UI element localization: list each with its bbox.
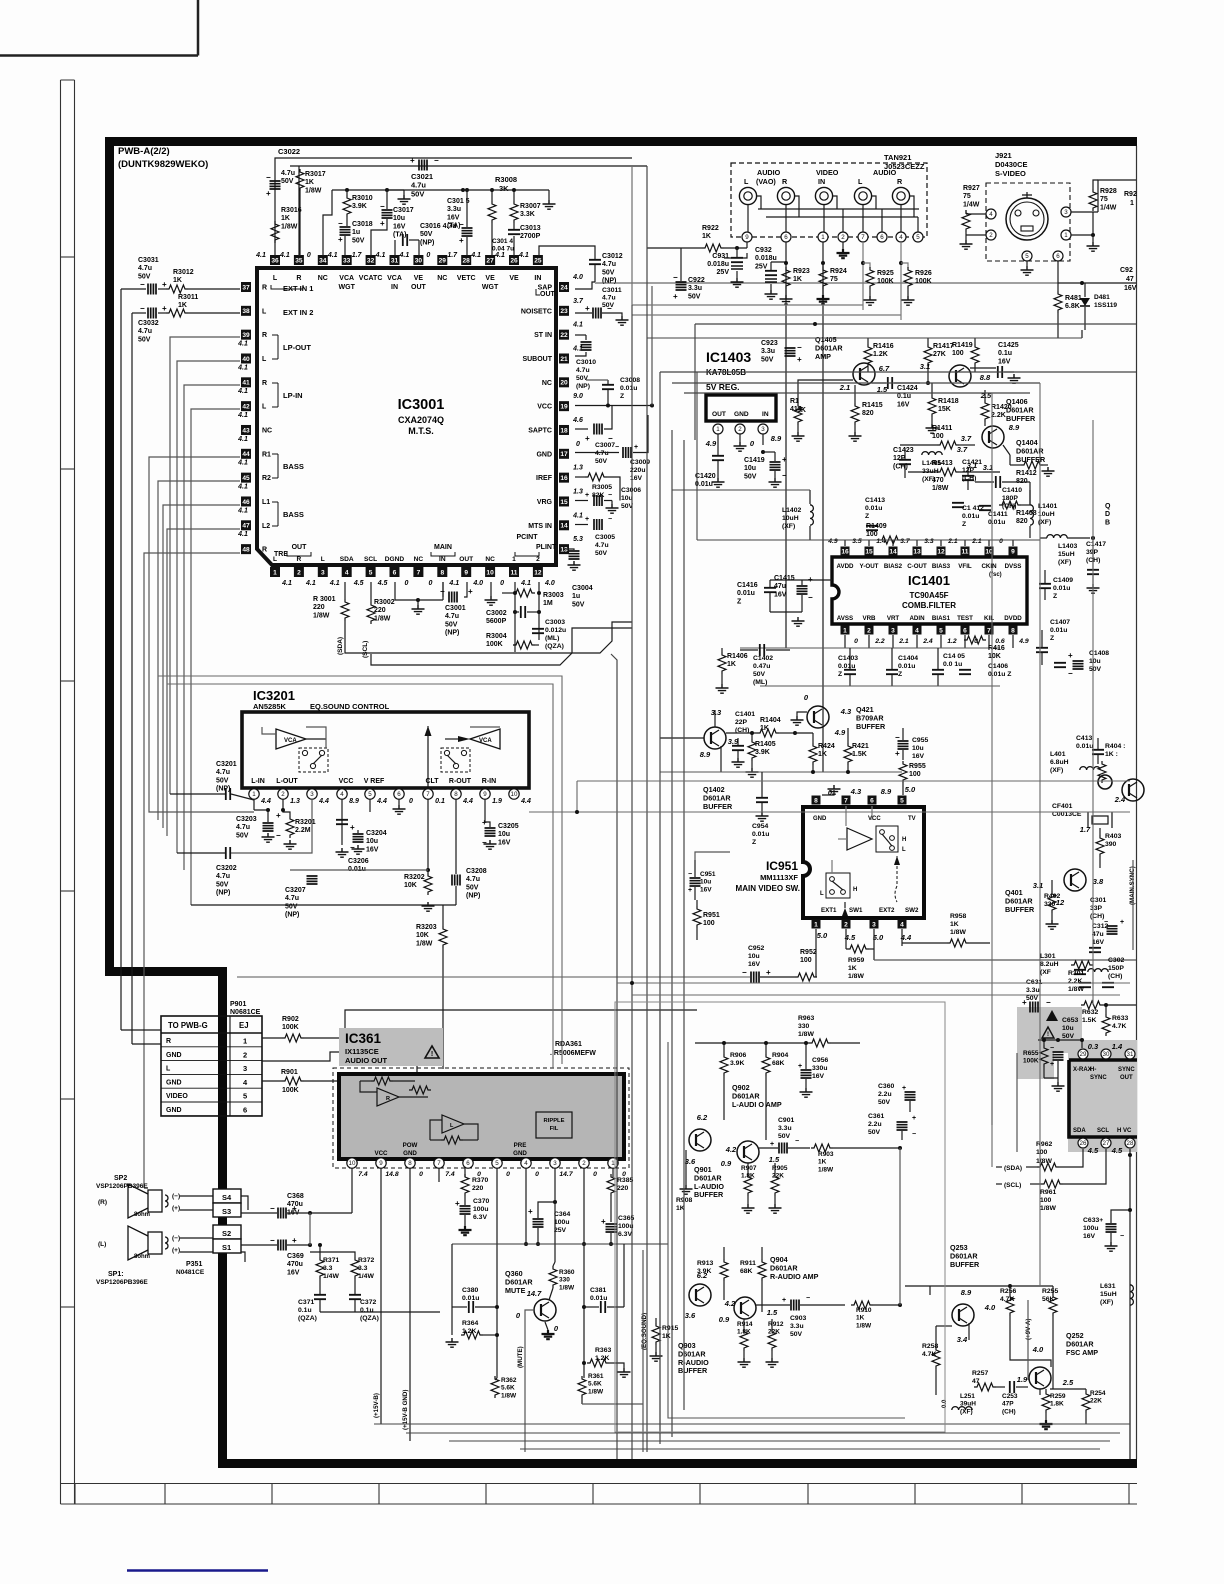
svg-text:OUT: OUT: [540, 291, 556, 298]
svg-text:2: 2: [281, 791, 285, 798]
svg-text:17: 17: [560, 451, 568, 458]
svg-text:8: 8: [440, 569, 444, 576]
svg-text:(CH): (CH): [1002, 1408, 1016, 1415]
svg-text:100K: 100K: [915, 278, 932, 285]
svg-text:6.3V: 6.3V: [473, 1214, 487, 1221]
svg-text:6: 6: [880, 234, 884, 241]
capacitor C3010: [575, 334, 586, 336]
svg-text:5.0: 5.0: [905, 785, 916, 794]
video switch IC951 body: [803, 807, 924, 918]
svg-text:100: 100: [800, 957, 812, 964]
svg-text:3.5: 3.5: [852, 538, 862, 545]
svg-text:BUFFER: BUFFER: [856, 722, 886, 731]
wire vca bus: [332, 189, 463, 191]
pin 5 IC361: [492, 1158, 502, 1168]
svg-text:5: 5: [900, 797, 904, 804]
resistor R363: [587, 1359, 609, 1367]
pin 6 TAN921: [877, 232, 887, 242]
wire vref gnd: [369, 799, 371, 812]
svg-text:C1416: C1416: [737, 582, 758, 589]
pin 1 IC1401: [841, 626, 850, 635]
svg-text:−: −: [434, 156, 439, 165]
svg-text:C3206: C3206: [348, 858, 369, 865]
svg-text:27K: 27K: [933, 351, 946, 358]
svg-text:VCA: VCA: [479, 738, 492, 744]
svg-text:4.1: 4.1: [572, 512, 583, 519]
svg-text:10u: 10u: [744, 465, 756, 472]
svg-text:15uH: 15uH: [1100, 1291, 1117, 1298]
capacitor C3006: [575, 500, 588, 502]
svg-text:150P: 150P: [1108, 965, 1124, 972]
transistor Q401: [1064, 869, 1086, 891]
svg-text:C360: C360: [878, 1083, 894, 1090]
svg-text:R1420: R1420: [991, 404, 1012, 411]
group label BASS 2: [272, 502, 278, 526]
svg-text:1: 1: [273, 569, 277, 576]
svg-text:10K: 10K: [988, 653, 1001, 660]
svg-text:45: 45: [242, 475, 250, 482]
pin 9 TAN921: [742, 232, 752, 242]
svg-text:R928: R928: [1100, 188, 1117, 195]
svg-text:28: 28: [463, 257, 471, 264]
svg-text:18: 18: [560, 427, 568, 434]
pin 46 IC3001: [241, 496, 251, 506]
svg-text:5.0: 5.0: [817, 931, 828, 940]
pin 29 IC601: [1078, 1049, 1088, 1059]
capacitor C365: [606, 1224, 617, 1232]
svg-text:KIL: KIL: [984, 615, 994, 622]
page frame: title box top-left: [0, 0, 198, 56]
svg-text:0.01u: 0.01u: [752, 831, 769, 838]
svg-text:+: +: [455, 1199, 460, 1208]
resistor R1419: [971, 344, 979, 366]
svg-text:R361: R361: [588, 1373, 604, 1380]
svg-text:10u: 10u: [1062, 1025, 1074, 1032]
svg-text:RDA361: RDA361: [555, 1041, 582, 1048]
svg-text:27: 27: [1103, 1140, 1110, 1147]
pin 16 IC3001: [559, 473, 569, 483]
svg-text:Z: Z: [737, 598, 742, 605]
svg-text:1K: 1K: [662, 1333, 671, 1340]
svg-text:2: 2: [989, 232, 993, 239]
svg-text:C955: C955: [912, 737, 928, 744]
capacitor C1410: [996, 476, 1000, 488]
svg-text:1.5: 1.5: [769, 1155, 780, 1164]
svg-text:100K: 100K: [282, 1024, 299, 1031]
capacitor C3032: [148, 308, 156, 319]
svg-text:1.5K: 1.5K: [1082, 1017, 1096, 1024]
svg-text:50V: 50V: [445, 621, 458, 628]
svg-text:(ML): (ML): [753, 679, 767, 686]
svg-text:16V: 16V: [498, 839, 511, 846]
svg-text:(XF: (XF: [1040, 969, 1051, 976]
svg-text:0.0 1u: 0.0 1u: [943, 661, 962, 668]
svg-text:C1413: C1413: [865, 497, 885, 504]
svg-text:−: −: [806, 1295, 810, 1302]
svg-text:3.1: 3.1: [1033, 881, 1043, 890]
resistor R1415: [851, 403, 859, 425]
svg-text:C368: C368: [287, 1193, 304, 1200]
svg-text:+: +: [797, 355, 802, 364]
svg-text:R1405: R1405: [755, 741, 776, 748]
svg-text:50V: 50V: [352, 237, 365, 244]
switch ext IC951: [826, 873, 850, 898]
svg-text:R: R: [782, 177, 788, 186]
resistor R3201: [286, 816, 294, 838]
svg-text:SDA: SDA: [1073, 1128, 1086, 1134]
pin 2 IC1403: [735, 424, 745, 434]
svg-text:4.7u: 4.7u: [285, 895, 299, 902]
svg-text:PRE: PRE: [514, 1142, 527, 1149]
svg-text:7: 7: [437, 1160, 441, 1167]
transistor Q252: [1029, 1367, 1051, 1389]
svg-text:0.1u: 0.1u: [998, 350, 1012, 357]
svg-text:0: 0: [500, 580, 504, 587]
svg-text:OUT: OUT: [712, 411, 726, 418]
svg-text:R911: R911: [740, 1260, 756, 1267]
pin 40 IC3001: [241, 353, 251, 363]
pin 7 IC3001: [413, 567, 423, 577]
svg-text:4.7K: 4.7K: [1112, 1023, 1126, 1030]
svg-text:+: +: [468, 587, 473, 596]
svg-text:(−): (−): [172, 1193, 180, 1200]
svg-text:4.0: 4.0: [1032, 1345, 1044, 1354]
svg-text:R3004: R3004: [486, 633, 507, 640]
warning triangle IC361: [425, 1046, 439, 1058]
svg-text:14.7: 14.7: [559, 1171, 573, 1178]
svg-text:1.5K: 1.5K: [852, 751, 867, 758]
amp triangle IC951: [847, 828, 872, 850]
capacitor C3205: [485, 828, 496, 836]
svg-text:50V: 50V: [595, 550, 608, 557]
svg-text:10u: 10u: [393, 215, 405, 222]
svg-text:EXT IN 2: EXT IN 2: [283, 308, 313, 317]
svg-text:390: 390: [1105, 841, 1117, 848]
svg-text:4.4: 4.4: [520, 798, 531, 805]
svg-text:2.1: 2.1: [839, 383, 850, 392]
wire sap out: [575, 282, 595, 289]
svg-text:4.5: 4.5: [353, 580, 364, 587]
svg-text:C1402: C1402: [753, 655, 773, 662]
svg-text:8ohm: 8ohm: [134, 1212, 150, 1218]
svg-text:R255: R255: [1042, 1288, 1058, 1295]
svg-text:100K: 100K: [282, 1087, 299, 1094]
svg-text:TO PWB-G: TO PWB-G: [168, 1021, 208, 1030]
svg-text:220: 220: [313, 604, 325, 611]
svg-text:C1401: C1401: [735, 711, 755, 718]
svg-text:0: 0: [854, 638, 858, 645]
svg-text:3.9K: 3.9K: [352, 203, 367, 210]
svg-text:16V: 16V: [748, 961, 761, 968]
svg-text:VCA: VCA: [387, 275, 402, 282]
svg-text:8ohm: 8ohm: [134, 1254, 150, 1260]
resistor R370: [464, 1168, 466, 1177]
pin 1 IC3201: [249, 789, 259, 799]
svg-text:NC: NC: [318, 275, 328, 282]
svg-text:C413: C413: [1076, 735, 1092, 742]
pin 2 IC1401: [865, 626, 874, 635]
svg-text:R256: R256: [1000, 1288, 1016, 1295]
wire pin3 down: [554, 1168, 556, 1262]
svg-text:−: −: [1104, 919, 1108, 926]
svg-text:23: 23: [560, 308, 568, 315]
svg-text:22: 22: [560, 332, 568, 339]
connector S1: [213, 1239, 241, 1253]
svg-text:R915: R915: [662, 1325, 678, 1332]
svg-text:0: 0: [419, 1171, 423, 1178]
svg-text:6.2: 6.2: [697, 1271, 708, 1280]
svg-text:330: 330: [798, 1023, 810, 1030]
pin 30 IC601: [1101, 1049, 1111, 1059]
svg-text:R905: R905: [772, 1165, 788, 1172]
svg-text:X-RAX: X-RAX: [1073, 1067, 1092, 1073]
svg-text:−: −: [797, 343, 802, 352]
svg-text:5: 5: [1025, 253, 1029, 260]
svg-text:3: 3: [553, 1160, 557, 1167]
op-amp IC361 outer dashed: [333, 1068, 629, 1168]
svg-text:GND: GND: [166, 1052, 182, 1059]
svg-text:S2: S2: [222, 1229, 231, 1238]
wire bus h372: [660, 371, 1136, 373]
svg-text:EXT2: EXT2: [879, 907, 895, 914]
svg-text:C302: C302: [1108, 957, 1124, 964]
svg-text:IC951: IC951: [766, 859, 798, 873]
capacitor C3021: [419, 160, 427, 171]
svg-text:(NP): (NP): [576, 383, 590, 390]
pin 5 TAN921: [913, 232, 923, 242]
pin 10 IC3201: [509, 789, 519, 799]
svg-text:4.1: 4.1: [399, 252, 410, 259]
svg-text:16V: 16V: [998, 358, 1011, 365]
svg-text:−: −: [380, 202, 385, 211]
pin 10 IC3001: [485, 567, 495, 577]
svg-text:3.8: 3.8: [1093, 877, 1104, 886]
svg-text:4.7u: 4.7u: [595, 450, 609, 457]
svg-text:7: 7: [417, 569, 421, 576]
svg-text:C3021: C3021: [411, 172, 433, 181]
capacitor C3004: [569, 551, 580, 559]
svg-text:C3201: C3201: [216, 761, 237, 768]
svg-text:1.8K: 1.8K: [1050, 1401, 1064, 1408]
svg-text:C3022: C3022: [278, 147, 300, 156]
pin 4 IC361: [521, 1158, 531, 1168]
wire ic951 pins down: [815, 929, 817, 977]
svg-text:13: 13: [560, 547, 568, 554]
svg-text:R1419: R1419: [952, 342, 973, 349]
svg-text:47P: 47P: [1002, 1401, 1014, 1408]
svg-text:C370: C370: [473, 1198, 489, 1205]
svg-text:3.1: 3.1: [920, 362, 930, 371]
svg-text:PLINT: PLINT: [536, 544, 557, 551]
svg-text:3.3u: 3.3u: [688, 285, 702, 292]
svg-text:8: 8: [814, 797, 818, 804]
pin 3 P901: [161, 1073, 262, 1075]
ground C653: [1057, 1061, 1059, 1078]
vca amp left: [276, 729, 306, 749]
svg-text:6: 6: [1056, 253, 1060, 260]
group label BASS 1: [272, 454, 278, 478]
svg-text:9: 9: [464, 569, 468, 576]
svg-text:−: −: [608, 492, 612, 499]
pin 1 TAN921: [818, 232, 828, 242]
svg-text:R1404: R1404: [760, 717, 781, 724]
svg-text:NC: NC: [485, 556, 495, 563]
svg-text:R922: R922: [702, 225, 719, 232]
switch left: [299, 748, 328, 772]
svg-text:C3203: C3203: [236, 816, 257, 823]
svg-text:4.1: 4.1: [281, 580, 292, 587]
svg-text:C1410: C1410: [1002, 487, 1022, 494]
wire bus left of ic: [991, 1040, 993, 1125]
svg-text:0: 0: [576, 441, 580, 448]
svg-text:C1403: C1403: [838, 655, 858, 662]
svg-text:R301: R301: [1068, 970, 1084, 977]
wire vca feedback: [262, 727, 276, 734]
svg-text:10uH: 10uH: [782, 515, 799, 522]
svg-text:16V: 16V: [1092, 939, 1105, 946]
svg-text:1.3: 1.3: [573, 488, 583, 495]
connector S4: [213, 1189, 241, 1203]
wire pin2 down: [583, 1168, 585, 1378]
svg-text:EXT IN 1: EXT IN 1: [283, 284, 313, 293]
svg-text:C3012: C3012: [602, 253, 623, 260]
svg-text:47: 47: [1126, 276, 1134, 283]
svg-text:L1402: L1402: [782, 507, 801, 514]
svg-text:GND: GND: [513, 1150, 527, 1157]
capacitor C370: [460, 1206, 471, 1214]
svg-text:LP-OUT: LP-OUT: [283, 343, 311, 352]
svg-text:4.1: 4.1: [237, 340, 248, 347]
svg-text:39P: 39P: [1086, 549, 1099, 556]
svg-text:L1: L1: [262, 499, 270, 506]
arrow clt: [427, 739, 429, 800]
svg-text:0.04 7u: 0.04 7u: [492, 246, 514, 253]
svg-text:100: 100: [703, 920, 715, 927]
schematic thick border step: [105, 967, 227, 976]
svg-text:MM1113XF: MM1113XF: [760, 873, 798, 882]
svg-text:4: 4: [345, 569, 349, 576]
svg-text:−: −: [1120, 1233, 1124, 1240]
svg-text:C1408: C1408: [1089, 650, 1109, 657]
svg-text:35: 35: [295, 257, 303, 264]
svg-text:(CH): (CH): [1090, 913, 1104, 920]
pin 18 IC3001: [559, 425, 569, 435]
wire left bundle: [120, 289, 122, 1030]
svg-text:50V: 50V: [411, 189, 424, 198]
pin 15 IC3001: [559, 496, 569, 506]
svg-text:39: 39: [242, 332, 250, 339]
svg-text:IC3201: IC3201: [253, 688, 295, 703]
svg-text:10u: 10u: [748, 953, 760, 960]
svg-text:50V: 50V: [688, 293, 701, 300]
svg-text:R3011: R3011: [178, 294, 198, 301]
capacitor C3005: [575, 524, 588, 526]
svg-text:C92: C92: [1120, 267, 1133, 274]
svg-text:C3001: C3001: [445, 605, 466, 612]
pin 48 IC3001: [241, 544, 251, 554]
wire q421 bus: [795, 732, 813, 734]
svg-text:WGT: WGT: [482, 284, 499, 291]
inductor L1403: [1047, 535, 1067, 538]
svg-text:(+): (+): [172, 1205, 180, 1212]
svg-text:R481: R481: [1065, 295, 1082, 302]
svg-text:1.4: 1.4: [876, 538, 886, 545]
svg-text:1K: 1K: [305, 179, 314, 186]
svg-text:29: 29: [1080, 1051, 1087, 1058]
capacitor C954: [756, 798, 768, 802]
svg-text:48: 48: [242, 547, 250, 554]
svg-text:C3008: C3008: [620, 377, 640, 384]
svg-text:16V: 16V: [812, 1073, 825, 1080]
resistor R301: [1071, 961, 1093, 969]
svg-text:−: −: [350, 843, 355, 852]
amp R IC361: [377, 1088, 399, 1106]
svg-text:R: R: [262, 547, 267, 554]
svg-text:SYNC: SYNC: [1090, 1075, 1107, 1081]
svg-text:1.7: 1.7: [447, 252, 458, 259]
svg-text:47: 47: [242, 523, 250, 530]
pin 19 IC3001: [559, 401, 569, 411]
svg-text:R: R: [897, 177, 903, 186]
svg-text:4.7u: 4.7u: [445, 613, 459, 620]
svg-text:SDA: SDA: [340, 556, 354, 563]
resistor R481: [1054, 291, 1062, 313]
pin 5 IC1401: [937, 626, 946, 635]
svg-text:TAN921: TAN921: [884, 153, 911, 162]
svg-text:BUFFER: BUFFER: [678, 1366, 708, 1375]
svg-text:25V: 25V: [755, 263, 768, 270]
svg-text:C361: C361: [868, 1113, 884, 1120]
svg-text:Z: Z: [1053, 593, 1057, 600]
svg-text:10u: 10u: [366, 838, 378, 845]
svg-text:R254: R254: [1090, 1390, 1106, 1397]
svg-text:1: 1: [821, 234, 825, 241]
svg-text:R421: R421: [852, 743, 869, 750]
transistor Q903: [689, 1284, 711, 1306]
svg-text:0.9: 0.9: [721, 1159, 732, 1168]
svg-text:VFIL: VFIL: [958, 563, 972, 570]
svg-text:16: 16: [560, 475, 568, 482]
svg-text:R903: R903: [818, 1151, 834, 1158]
svg-text:4.1: 4.1: [237, 412, 248, 419]
svg-text:1.7: 1.7: [352, 252, 363, 259]
bracket L R ext in label: [271, 285, 303, 289]
svg-text:75: 75: [830, 276, 838, 283]
svg-text:−: −: [608, 516, 612, 523]
svg-text:3.4: 3.4: [957, 1335, 968, 1344]
svg-text:1/8W: 1/8W: [281, 223, 298, 230]
svg-text:+: +: [459, 236, 464, 245]
svg-text:H-: H-: [1090, 1067, 1096, 1073]
svg-text:C3202: C3202: [216, 865, 237, 872]
svg-text:1.3: 1.3: [290, 798, 300, 805]
svg-text:AMP: AMP: [815, 352, 831, 361]
svg-text:4.0: 4.0: [472, 580, 483, 587]
svg-text:+: +: [673, 292, 678, 301]
ground Q360: [545, 1322, 548, 1330]
svg-text:50V: 50V: [878, 1099, 891, 1106]
capacitor C3012: [589, 260, 601, 264]
svg-text:BIAS1: BIAS1: [932, 615, 951, 622]
svg-text:16V: 16V: [287, 1269, 300, 1276]
svg-text:L: L: [820, 891, 824, 897]
svg-text:75: 75: [1100, 196, 1108, 203]
svg-text:R962: R962: [1036, 1141, 1052, 1148]
svg-text:1.3: 1.3: [573, 465, 583, 472]
svg-text:1.9: 1.9: [492, 798, 502, 805]
wire s-route: [144, 1187, 148, 1189]
svg-text:R: R: [297, 556, 302, 563]
